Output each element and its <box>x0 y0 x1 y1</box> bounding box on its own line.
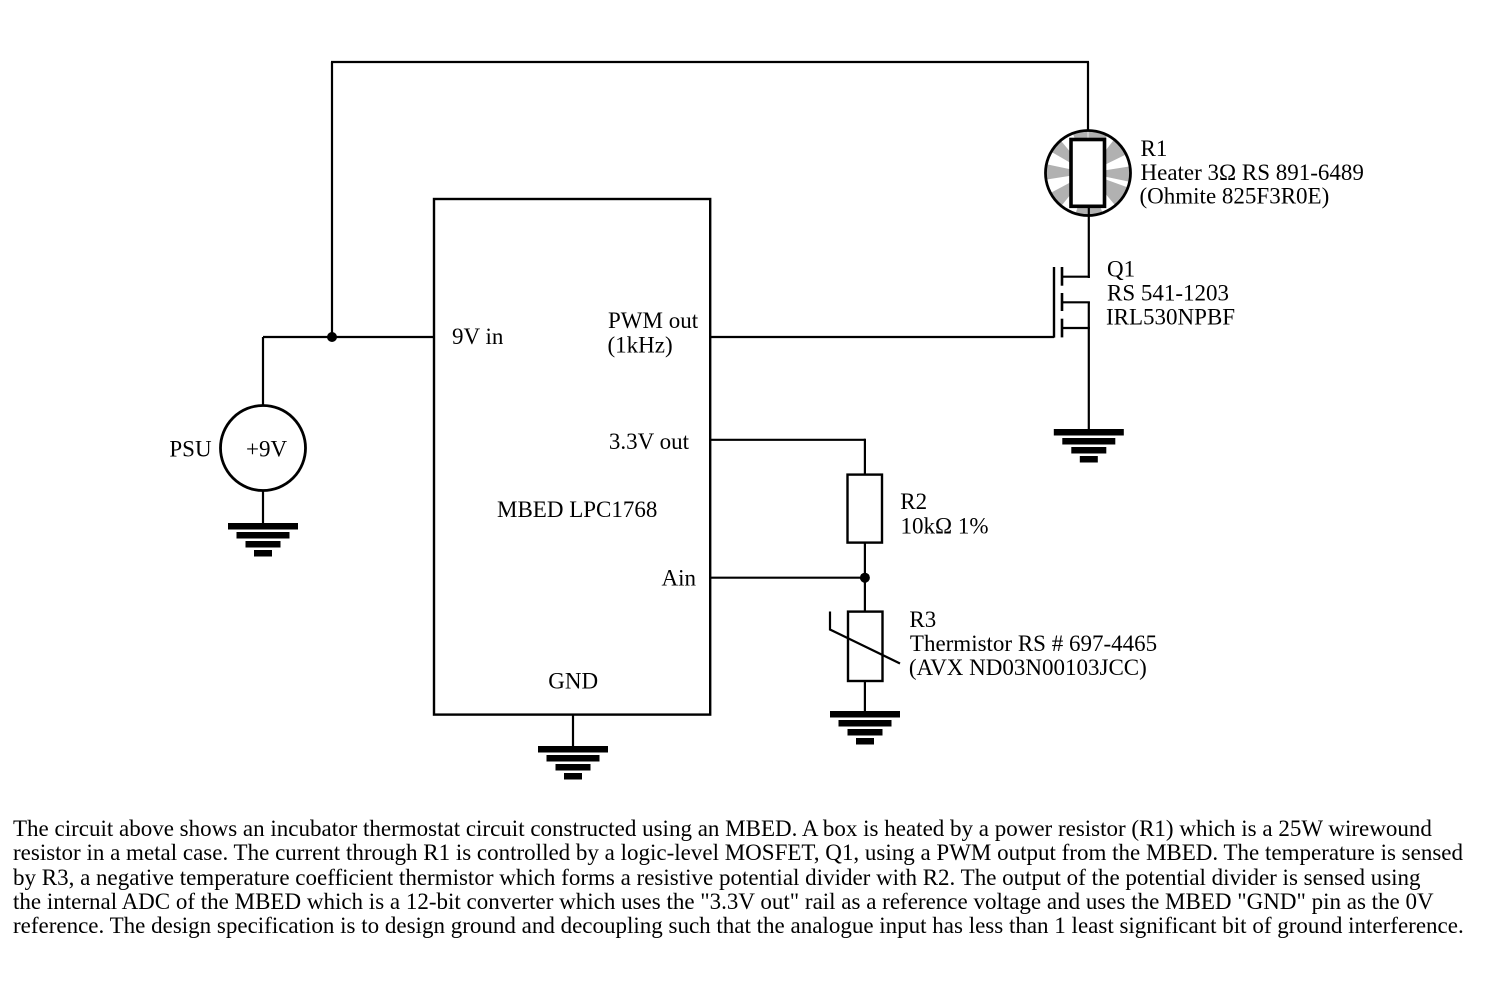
wire GND stub below MBED <box>572 714 574 747</box>
wire 9V horizontal from PSU to MBED 9V in pin <box>263 336 435 338</box>
wire PWM out from MBED to Q1 gate <box>710 336 1054 338</box>
thermistor R3 body <box>848 612 883 681</box>
svg-text:PWM out: PWM out <box>608 308 699 333</box>
svg-text:(AVX ND03N00103JCC): (AVX ND03N00103JCC) <box>909 655 1147 680</box>
Q1 body horizontal <box>1061 301 1090 303</box>
svg-text:RS 541-1203: RS 541-1203 <box>1107 281 1229 306</box>
svg-text:(1kHz): (1kHz) <box>608 333 673 358</box>
ground symbol below R3 <box>830 711 900 745</box>
Q1 channel dash middle <box>1061 293 1064 311</box>
wire left vertical from top rail down to node A <box>331 62 333 338</box>
wire from top rail down to R1 <box>1087 62 1089 142</box>
svg-text:+9V: +9V <box>246 437 287 462</box>
svg-text:GND: GND <box>548 669 598 694</box>
wire R3 bottom lead <box>864 681 866 712</box>
ground symbol below MBED GND pin <box>538 746 608 780</box>
svg-text:(Ohmite 825F3R0E): (Ohmite 825F3R0E) <box>1140 184 1330 209</box>
ground symbol below Q1 source <box>1054 429 1124 463</box>
Q1 source vertical down <box>1088 302 1090 430</box>
wire R2 bottom to R3 top <box>864 543 866 612</box>
svg-text:9V in: 9V in <box>452 324 504 349</box>
node B junction dot (divider tap) <box>860 573 870 583</box>
svg-text:R2: R2 <box>900 489 927 514</box>
wire 3.3V out horizontal <box>710 439 865 441</box>
wire R1 bottom to Q1 drain <box>1088 206 1090 278</box>
PSU +9V source circle <box>221 406 306 491</box>
svg-text:3.3V out: 3.3V out <box>609 429 690 454</box>
svg-text:R1: R1 <box>1141 136 1168 161</box>
wire 3.3V out vertical down to R2 <box>864 439 866 475</box>
svg-text:R3: R3 <box>909 607 936 632</box>
Q1 drain horizontal <box>1061 276 1090 278</box>
Q1 channel dash top <box>1061 267 1064 286</box>
svg-text:Q1: Q1 <box>1107 256 1135 281</box>
Q1 channel dash bottom <box>1061 319 1064 338</box>
heater resistor R1 symbol (circle with fan wedges and resistor body) <box>1037 121 1140 225</box>
svg-text:Ain: Ain <box>662 566 697 591</box>
svg-text:Heater 3Ω RS 891-6489: Heater 3Ω RS 891-6489 <box>1141 160 1364 185</box>
svg-text:MBED LPC1768: MBED LPC1768 <box>497 497 657 522</box>
MBED LPC1768 box U1 <box>434 199 710 715</box>
svg-text:IRL530NPBF: IRL530NPBF <box>1106 304 1235 329</box>
Q1 gate bar <box>1053 267 1055 338</box>
resistor R2 body <box>848 475 883 543</box>
wire Ain horizontal <box>710 577 865 579</box>
Q1 source horizontal <box>1061 327 1090 329</box>
caption paragraph <box>13 817 1464 938</box>
wire PSU bottom lead <box>262 490 264 524</box>
node A junction dot <box>327 332 337 342</box>
wire PSU top lead <box>262 337 264 407</box>
svg-text:PSU: PSU <box>169 437 212 462</box>
svg-text:Thermistor RS # 697-4465: Thermistor RS # 697-4465 <box>910 631 1157 656</box>
svg-text:10kΩ 1%: 10kΩ 1% <box>901 514 989 539</box>
wire top horizontal from node A to R1 drain <box>331 61 1089 63</box>
ground symbol below PSU <box>228 523 298 557</box>
thermistor R3 diagonal stroke <box>830 612 900 664</box>
transistor Q1 N-MOSFET <box>1054 267 1090 430</box>
